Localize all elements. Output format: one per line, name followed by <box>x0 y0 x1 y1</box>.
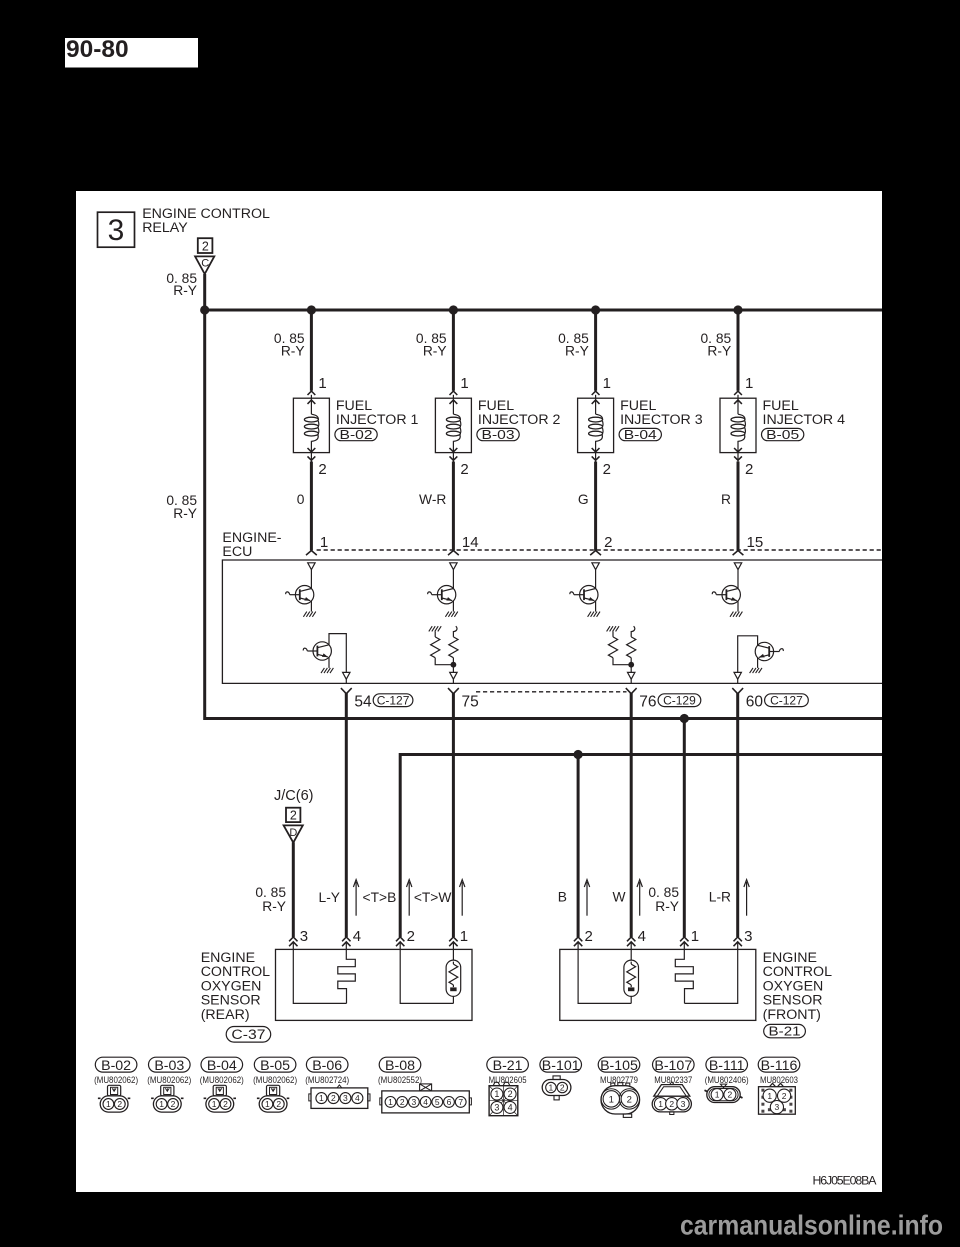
connector designator B-21 <box>764 1024 806 1037</box>
wire emitter Q54 to ground <box>328 657 330 668</box>
resistor R (right of divider) with pigtail <box>453 626 457 637</box>
svg-text:1: 1 <box>320 534 328 551</box>
svg-text:2: 2 <box>745 461 753 478</box>
svg-text:4: 4 <box>638 928 646 945</box>
sensing element (rear, zirconia meander) <box>338 949 356 1003</box>
oxygen sensor (rear) box C-37 <box>276 949 473 1020</box>
svg-text:2: 2 <box>585 928 593 945</box>
svg-text:4: 4 <box>355 1093 360 1103</box>
connector designator C-37 <box>226 1027 271 1043</box>
connector chevron at ECU pin 15 <box>733 551 744 556</box>
svg-text:(FRONT): (FRONT) <box>763 1007 821 1023</box>
svg-text:2: 2 <box>782 1091 787 1101</box>
junction node on trunk bus feeding front sensor pin 1 <box>680 714 689 723</box>
oxygen sensor (front) box B-21 <box>560 949 756 1020</box>
svg-text:3: 3 <box>744 928 752 945</box>
svg-text:(MU802552): (MU802552) <box>378 1075 422 1086</box>
connector chevrons at sensor pin 4 <box>342 937 350 941</box>
wire transistor emitter to ground (pin 14 group) <box>452 601 454 612</box>
svg-text:B-21: B-21 <box>493 1058 523 1074</box>
svg-text:3: 3 <box>108 214 125 247</box>
connector B-101 pinout <box>540 1057 582 1100</box>
wire stub into sensor <box>630 942 632 950</box>
wire 0.85 R-Y from relay down and right bus to ECU area <box>205 274 882 719</box>
wire from ECU pin 60 down to sensor <box>736 693 739 937</box>
wire transistor emitter to ground (pin 2 group) <box>595 601 597 612</box>
connector chevron at ECU pin 76 <box>626 688 637 694</box>
connector B-116 pinout <box>758 1057 800 1114</box>
connector designator C-127 <box>373 694 413 707</box>
wire stub into sensor <box>399 942 401 950</box>
svg-text:2: 2 <box>508 1089 513 1099</box>
svg-text:(MU802062): (MU802062) <box>200 1075 244 1086</box>
connector chevrons at injector 1 pin 1 <box>308 391 316 395</box>
transistor Q (driver for pin 14) <box>428 586 456 604</box>
connector designator B-02 <box>335 428 377 440</box>
wire inside ECU triangle stem pin 54 <box>345 679 347 683</box>
signal direction arrow (T-B) <box>407 880 412 916</box>
ECU dashed boundary top <box>317 549 882 551</box>
junction triangle D <box>284 825 303 842</box>
svg-text:W-R: W-R <box>419 492 446 507</box>
connector B-08 pinout <box>378 1057 471 1113</box>
junction node on bus at injector 4 <box>733 305 742 314</box>
transistor Q (output driver to pin 60, mirrored) <box>755 642 783 660</box>
svg-text:6: 6 <box>447 1097 452 1107</box>
resistor R (right of divider) with pigtail <box>631 626 635 637</box>
connector chevrons at sensor pin 2 <box>574 937 582 941</box>
connector chevron at ECU pin 75 <box>448 688 459 694</box>
svg-text:1: 1 <box>265 1099 270 1109</box>
svg-text:R-Y: R-Y <box>281 343 305 358</box>
svg-text:1: 1 <box>658 1099 663 1109</box>
signal direction arrow (T-W) <box>460 880 465 916</box>
svg-text:2: 2 <box>290 809 297 823</box>
svg-text:0. 85: 0. 85 <box>648 885 679 900</box>
svg-text:0: 0 <box>297 492 305 507</box>
wire stub into sensor <box>292 942 294 950</box>
connector chevrons at injector 1 pin 2 <box>308 448 316 452</box>
wire inside ECU pin 1 to transistor <box>310 570 312 589</box>
svg-text:B-101: B-101 <box>542 1058 580 1074</box>
wire inside ECU triangle stem pin 60 <box>737 679 739 683</box>
ECU input triangle at pin 14 <box>450 563 457 570</box>
svg-text:3: 3 <box>681 1099 686 1109</box>
wire rear pin 3 inside <box>293 949 346 1003</box>
junction node on return bus feeding front sensor pin 2 <box>574 750 583 759</box>
connector chevrons at injector 3 pin 2 <box>592 448 600 452</box>
svg-text:C: C <box>201 258 209 270</box>
svg-text:3: 3 <box>343 1093 348 1103</box>
svg-text:2: 2 <box>560 1083 565 1093</box>
svg-text:B-21: B-21 <box>769 1024 801 1039</box>
signal direction arrow (L-Y) <box>353 880 358 916</box>
signal direction arrow (B) <box>584 880 589 916</box>
svg-text:75: 75 <box>462 694 479 711</box>
svg-text:1: 1 <box>603 375 611 392</box>
connector chevrons at injector 2 pin 1 <box>450 391 458 395</box>
connector B-04 pinout <box>200 1057 244 1112</box>
svg-text:B-02: B-02 <box>101 1058 131 1074</box>
wire 0.85 R-Y from J/C to rear sensor pin 3 <box>292 842 295 937</box>
svg-text:2: 2 <box>400 1097 405 1107</box>
transistor Q (driver for pin 1) <box>286 586 314 604</box>
svg-text:1: 1 <box>159 1099 164 1109</box>
svg-text:2: 2 <box>669 1099 674 1109</box>
wire 0.85 R-Y trunk to front sensor pin 1 <box>683 719 686 938</box>
wire inside ECU pin 14 to transistor <box>452 570 454 589</box>
svg-text:B-02: B-02 <box>340 428 373 442</box>
svg-text:1: 1 <box>745 375 753 392</box>
svg-text:C-37: C-37 <box>231 1027 265 1042</box>
connector chevrons at injector 2 pin 2 <box>450 448 458 452</box>
junction node on bus at injector 2 <box>449 305 458 314</box>
resistor R (left of divider) <box>434 631 436 637</box>
svg-text:B-111: B-111 <box>709 1058 745 1074</box>
svg-text:2: 2 <box>331 1093 336 1103</box>
svg-text:B-05: B-05 <box>260 1058 290 1074</box>
ground (pull resistor, pin group) <box>607 626 619 631</box>
ground <box>303 612 315 617</box>
ECU input triangle at pin 1 <box>308 563 315 570</box>
wire stub into sensor <box>683 942 685 950</box>
svg-text:1: 1 <box>494 1089 499 1099</box>
ground (pull resistor, pin group) <box>429 626 441 631</box>
wire inside ECU pin 2 to transistor <box>595 570 597 589</box>
svg-text:R-Y: R-Y <box>423 343 447 358</box>
connector B-03 pinout <box>147 1057 191 1112</box>
ECU output triangle at pin 76 <box>628 672 635 679</box>
svg-text:B-05: B-05 <box>766 428 799 442</box>
junction node at relay wire and bus <box>200 305 209 314</box>
connector chevron at ECU pin 1 <box>306 551 317 556</box>
svg-text:(MU802062): (MU802062) <box>147 1075 191 1086</box>
svg-text:2: 2 <box>202 239 209 253</box>
connector chevrons at injector 4 pin 1 <box>734 391 742 395</box>
svg-text:D: D <box>289 827 297 839</box>
ground <box>730 612 742 617</box>
svg-text:90-80: 90-80 <box>66 36 129 63</box>
svg-text:1: 1 <box>106 1099 111 1109</box>
wire inside ECU pin 15 to transistor <box>737 570 739 589</box>
ECU continuation dashed line between pins 75 and 76 <box>476 691 627 693</box>
svg-text:R-Y: R-Y <box>565 343 589 358</box>
svg-text:7: 7 <box>458 1097 463 1107</box>
svg-text:1: 1 <box>388 1097 393 1107</box>
svg-text:(MU802724): (MU802724) <box>305 1075 349 1086</box>
ECU input triangle at pin 15 <box>734 563 741 570</box>
svg-text:B-116: B-116 <box>761 1058 798 1074</box>
connector chevrons at sensor pin 2 <box>396 937 404 941</box>
svg-text:INJECTOR 2: INJECTOR 2 <box>478 412 561 428</box>
connector B-105 pinout <box>598 1057 640 1117</box>
svg-text:MU802779: MU802779 <box>600 1075 638 1086</box>
ECU output triangle at pin 75 <box>450 672 457 679</box>
ECU output triangle at pin 54 <box>343 672 350 679</box>
wire collector of Q60 up over to pin 60 triangle <box>738 636 758 673</box>
signal direction arrow (W) <box>637 880 642 916</box>
wire front pin 2 inside <box>578 949 631 1003</box>
power bus wire along top <box>205 309 882 312</box>
wire stub into sensor <box>737 942 739 950</box>
svg-text:4: 4 <box>423 1097 428 1107</box>
junction node divider output <box>628 662 634 668</box>
wire W-R injector 2 to ECU <box>452 462 455 551</box>
svg-text:54: 54 <box>354 694 372 711</box>
svg-text:(MU802062): (MU802062) <box>94 1075 138 1086</box>
wire front pin 3 inside <box>685 949 738 1003</box>
signal return bus wire to rear sensor pin 2 <box>400 755 882 938</box>
svg-text:L-R: L-R <box>709 889 731 904</box>
svg-text:2: 2 <box>223 1099 228 1109</box>
wire collector of Q54 up over to pin 54 triangle <box>329 634 346 673</box>
ground <box>750 668 762 673</box>
resistor divider to pin 75 <box>429 626 458 672</box>
connector designator B-03 <box>477 428 519 440</box>
svg-text:(MU802062): (MU802062) <box>253 1075 297 1086</box>
svg-text:1: 1 <box>767 1091 772 1101</box>
wire from ECU pin 54 down to sensor <box>345 693 348 937</box>
svg-text:<T>B: <T>B <box>363 890 397 905</box>
connector chevron at ECU pin 60 <box>732 688 743 694</box>
op-amp/ECU box ENGINE-ECU outline <box>222 560 882 683</box>
svg-text:0. 85: 0. 85 <box>255 885 286 900</box>
relay connector pin 2 <box>198 238 213 253</box>
svg-text:R-Y: R-Y <box>262 899 286 914</box>
svg-text:1: 1 <box>549 1083 554 1093</box>
svg-text:B-08: B-08 <box>385 1058 415 1074</box>
svg-text:1: 1 <box>691 928 699 945</box>
fuel injector 2 (B-03) <box>435 395 471 462</box>
ground <box>321 668 333 673</box>
connector B-21 pinout <box>487 1057 529 1116</box>
fuel injector 3 (B-04) <box>578 395 614 462</box>
connector B-02 pinout <box>94 1057 138 1112</box>
ground <box>588 612 600 617</box>
wire 0.85 R-Y bus to injector 3 pin 1 <box>594 310 597 391</box>
svg-text:2: 2 <box>318 461 326 478</box>
signal direction arrow (L-R) <box>744 880 749 916</box>
transistor Q (driver for pin 15) <box>712 586 740 604</box>
svg-text:5: 5 <box>435 1097 440 1107</box>
svg-text:2: 2 <box>603 461 611 478</box>
svg-text:C-127: C-127 <box>770 694 803 708</box>
svg-text:B-03: B-03 <box>154 1058 184 1074</box>
svg-text:B-105: B-105 <box>600 1058 638 1074</box>
connector designator C-127 <box>765 694 809 707</box>
svg-text:3: 3 <box>300 928 308 945</box>
wire inside ECU triangle stem pin 75 <box>452 679 454 683</box>
svg-text:3: 3 <box>494 1103 499 1113</box>
svg-text:H6J05E08BA: H6J05E08BA <box>813 1174 878 1188</box>
connector chevrons at sensor pin 3 <box>734 937 742 941</box>
connector chevrons at sensor pin 1 <box>680 937 688 941</box>
connector designator C-129 <box>658 694 701 707</box>
svg-text:B-107: B-107 <box>654 1058 692 1074</box>
diagram white sheet <box>76 191 882 1192</box>
relay callout box 3 <box>98 212 135 247</box>
transistor Q (output driver to pin 54) <box>303 642 331 660</box>
svg-text:3: 3 <box>775 1102 780 1112</box>
svg-text:RELAY: RELAY <box>142 220 188 236</box>
transistor Q (driver for pin 2) <box>570 586 598 604</box>
svg-text:60: 60 <box>746 694 764 711</box>
wire stub into sensor <box>577 942 579 950</box>
svg-text:INJECTOR 4: INJECTOR 4 <box>763 412 846 428</box>
svg-text:1: 1 <box>460 375 468 392</box>
wire from ECU pin 76 down to sensor <box>630 693 633 937</box>
svg-text:76: 76 <box>639 694 656 711</box>
junction node on bus at injector 3 <box>591 305 600 314</box>
wire stub into sensor <box>345 942 347 950</box>
svg-text:B-06: B-06 <box>312 1058 342 1074</box>
svg-text:B-04: B-04 <box>207 1058 237 1074</box>
wire B front sensor pin 2 from return bus <box>577 755 580 938</box>
wire from ECU pin 75 down to sensor <box>452 693 455 937</box>
wire inside ECU triangle stem pin 76 <box>630 679 632 683</box>
page number plate 90-80 <box>65 38 198 68</box>
connector chevron at ECU pin 54 <box>341 688 352 694</box>
junction triangle C <box>195 256 214 274</box>
svg-text:2: 2 <box>728 1090 733 1100</box>
connector chevrons at sensor pin 3 <box>289 937 297 941</box>
svg-text:1: 1 <box>318 375 326 392</box>
svg-text:C-127: C-127 <box>377 694 410 708</box>
connector designator B-04 <box>619 428 661 440</box>
wire transistor emitter to ground (pin 1 group) <box>310 601 312 612</box>
wire transistor emitter to ground (pin 15 group) <box>737 601 739 612</box>
svg-text:G: G <box>578 492 589 507</box>
svg-text:B: B <box>558 889 567 904</box>
svg-text:B-04: B-04 <box>624 428 657 442</box>
svg-text:4: 4 <box>353 928 361 945</box>
ECU output triangle at pin 60 <box>734 672 741 679</box>
svg-text:(REAR): (REAR) <box>201 1007 250 1023</box>
svg-text:1: 1 <box>609 1094 614 1105</box>
svg-text:W: W <box>612 889 625 904</box>
svg-text:1: 1 <box>319 1093 324 1103</box>
connector chevrons at sensor pin 4 <box>627 937 635 941</box>
resistor divider to pin 76 <box>607 626 636 672</box>
connector B-05 pinout <box>253 1057 297 1112</box>
connector chevrons at injector 3 pin 1 <box>592 391 600 395</box>
svg-text:1: 1 <box>715 1090 720 1100</box>
svg-text:R-Y: R-Y <box>707 343 731 358</box>
svg-text:14: 14 <box>462 534 479 551</box>
connector chevrons at sensor pin 1 <box>449 937 457 941</box>
wire R injector 4 to ECU <box>737 462 740 551</box>
ECU input triangle at pin 2 <box>592 563 599 570</box>
svg-text:2: 2 <box>407 928 415 945</box>
heater element (front) <box>624 949 639 1003</box>
connector B-111 pinout <box>705 1057 749 1102</box>
svg-text:INJECTOR 3: INJECTOR 3 <box>620 412 703 428</box>
J/C pin 2 <box>286 808 300 822</box>
resistor R (left of divider) <box>612 631 614 637</box>
wire stub into sensor <box>452 942 454 950</box>
svg-text:R: R <box>721 492 731 507</box>
svg-text:ECU: ECU <box>222 544 252 560</box>
heater element (rear) <box>446 949 461 1003</box>
wire 0.85 R-Y bus to injector 2 pin 1 <box>452 310 455 391</box>
wire 0 injector 1 to ECU <box>310 462 313 551</box>
connector chevron at ECU pin 2 <box>590 551 601 556</box>
svg-text:J/C(6): J/C(6) <box>274 788 313 804</box>
sensing element (front, zirconia meander) <box>675 949 693 1003</box>
wire rear pin 2 inside <box>400 949 453 1003</box>
svg-text:4: 4 <box>508 1103 513 1113</box>
svg-text:C-129: C-129 <box>663 694 696 708</box>
svg-text:<T>W: <T>W <box>414 890 452 905</box>
junction node on bus at injector 1 <box>307 305 316 314</box>
wire 0.85 R-Y bus to injector 1 pin 1 <box>310 310 313 391</box>
junction node divider output <box>451 662 457 668</box>
connector B-06 pinout <box>305 1057 370 1108</box>
connector chevrons at injector 4 pin 2 <box>734 448 742 452</box>
ground <box>445 612 457 617</box>
svg-text:R-Y: R-Y <box>173 283 197 298</box>
wire G injector 3 to ECU <box>594 462 597 551</box>
svg-text:B-03: B-03 <box>482 428 515 442</box>
svg-text:3: 3 <box>412 1097 417 1107</box>
svg-text:15: 15 <box>747 534 764 551</box>
svg-text:2: 2 <box>276 1099 281 1109</box>
svg-text:2: 2 <box>117 1099 122 1109</box>
svg-text:2: 2 <box>627 1094 632 1105</box>
fuel injector 1 (B-02) <box>293 395 329 462</box>
fuel injector 4 (B-05) <box>720 395 756 462</box>
svg-text:L-Y: L-Y <box>319 890 340 905</box>
connector B-107 pinout <box>652 1057 694 1114</box>
svg-text:2: 2 <box>460 461 468 478</box>
svg-text:2: 2 <box>604 534 612 551</box>
svg-text:INJECTOR 1: INJECTOR 1 <box>336 412 419 428</box>
svg-text:carmanualsonline.info: carmanualsonline.info <box>680 1209 943 1240</box>
svg-text:1: 1 <box>212 1099 217 1109</box>
wire emitter Q60 to ground <box>757 658 759 668</box>
svg-text:R-Y: R-Y <box>173 506 197 521</box>
svg-text:2: 2 <box>171 1099 176 1109</box>
connector chevron at ECU pin 14 <box>448 551 459 556</box>
wire 0.85 R-Y bus to injector 4 pin 1 <box>737 310 740 391</box>
svg-text:1: 1 <box>460 928 468 945</box>
connector designator B-05 <box>762 428 804 440</box>
svg-text:R-Y: R-Y <box>655 899 679 914</box>
